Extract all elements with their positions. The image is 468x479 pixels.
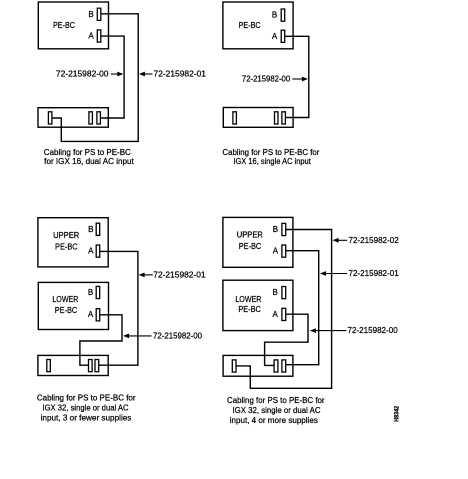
svg-text:IGX 32, single or dual AC: IGX 32, single or dual AC [42,404,128,413]
PS right connector 2 (D3) [95,360,99,372]
connector A (D2) [281,30,285,42]
connector B upper (D4) [282,223,286,235]
PS right connector 2 (D2) [282,112,286,124]
svg-text:72-215982-01: 72-215982-01 [349,269,400,278]
connector B lower (D3) [96,286,100,298]
connector B (D1) [97,8,101,20]
connector A lower (D3) [96,309,100,321]
connector B (D2) [281,9,285,21]
svg-text:H8342: H8342 [394,405,400,422]
LOWER PE-BC box (D4) [223,280,293,330]
UPPER PE-BC box (D4) [223,217,293,267]
svg-text:B: B [88,225,93,234]
svg-text:B: B [273,288,278,297]
PS box (D2) [223,108,293,128]
svg-text:A: A [88,310,94,319]
svg-text:72-215982-00: 72-215982-00 [153,331,203,340]
svg-text:72-215982-01: 72-215982-01 [153,270,206,279]
PS left connector (D3) [47,360,51,372]
svg-text:72-215982-00: 72-215982-00 [348,326,399,335]
svg-text:A: A [273,247,279,256]
svg-text:72-215982-00: 72-215982-00 [56,70,109,79]
arrow to -00 wire (D3) [125,335,152,337]
UPPER PE-BC box (D3) [38,218,108,267]
svg-text:A: A [272,32,278,41]
svg-text:input, 3 or fewer supplies: input, 3 or fewer supplies [41,414,132,423]
svg-text:72-215982-00: 72-215982-00 [242,75,291,84]
svg-text:B: B [88,288,93,297]
svg-text:PE-BC: PE-BC [239,242,262,251]
connector B upper (D3) [96,223,100,235]
PE-BC box (D2) [223,2,293,49]
svg-text:Cabling for PS to PE-BC: Cabling for PS to PE-BC [44,148,131,157]
arrow to -00 wire (D1) [111,73,121,75]
svg-text:A: A [88,32,94,41]
svg-text:PE-BC: PE-BC [55,306,78,315]
svg-text:LOWER: LOWER [52,295,78,304]
svg-text:IGX 16, single AC input: IGX 16, single AC input [233,157,311,166]
connector A lower (D4) [282,308,286,320]
svg-text:72-215982-01: 72-215982-01 [154,70,207,79]
wire cable 72-215982-01: upper A to PS right connector 2 (D4) [286,251,319,365]
PS box (D1) [38,108,108,128]
wire cable 72-215982-00: lower A to PS right connector 1 (D4) [265,314,308,365]
connector A (D1) [97,30,101,42]
wire cable 72-215982-00: A to PS right connector (D2) [285,36,309,117]
wire cable 72-215982-01: upper A to PS right connector 2 (D3) [99,251,138,365]
arrow to -01 wire (D4) [322,273,348,275]
svg-text:A: A [273,310,279,319]
svg-text:Cabling for PS to PE-BC for: Cabling for PS to PE-BC for [37,394,136,403]
arrow to -01 wire (D1) [141,73,153,75]
PS right connector 1 (D3) [89,360,93,372]
svg-text:PE-BC: PE-BC [238,305,261,314]
svg-text:B: B [272,11,277,20]
svg-text:A: A [88,247,94,256]
wire cable 72-215982-00: A to PS right connector (D1) [100,36,124,118]
LOWER PE-BC box (D3) [38,282,108,329]
PS left connector (D1) [48,112,52,124]
svg-text:UPPER: UPPER [53,231,79,240]
svg-text:UPPER: UPPER [237,230,263,239]
connector A upper (D4) [282,245,286,257]
PS box (D4) [223,355,293,376]
wire cable 72-215982-00: lower A to PS right connector 1 (D3) [80,315,122,365]
svg-text:PE-BC: PE-BC [239,21,261,30]
wire cable 72-215982-02: upper B to PS left connector (D4) [236,230,332,389]
PS box (D3) [38,355,108,375]
PS right connector 1 (D4) [274,360,278,372]
PS right connector 2 (D4) [282,360,286,372]
PE-BC box (D1) [38,2,108,49]
svg-text:IGX 32, single or dual AC: IGX 32, single or dual AC [232,406,320,415]
svg-text:PE-BC: PE-BC [55,243,78,252]
svg-text:Cabling for PS to PE-BC for: Cabling for PS to PE-BC for [227,396,325,405]
svg-text:B: B [273,225,278,234]
PS right connector 2 (D1) [97,112,101,124]
PS left connector (D2) [233,112,237,124]
svg-text:for IGX 16, dual AC input: for IGX 16, dual AC input [44,157,134,166]
connector B lower (D4) [282,287,286,299]
PS right connector 1 (D1) [89,112,93,124]
arrow to -00 wire (D4) [312,330,347,332]
arrow to -02 wire (D4) [334,239,347,241]
PS left connector (D4) [232,360,236,372]
wire cable 72-215982-01: B to PS left connector (D1) [52,14,138,142]
svg-text:PE-BC: PE-BC [53,21,75,30]
PS right connector 1 (D2) [275,112,279,124]
svg-text:B: B [88,10,93,19]
svg-text:72-215982-02: 72-215982-02 [349,236,400,245]
svg-text:input, 4 or more supplies: input, 4 or more supplies [230,416,318,425]
arrow to -00 wire (D2) [292,78,305,80]
svg-text:LOWER: LOWER [235,295,261,304]
svg-text:Cabling for PS to PE-BC for: Cabling for PS to PE-BC for [222,148,319,157]
arrow to -01 wire (D3) [140,274,153,276]
connector A upper (D3) [96,245,100,257]
